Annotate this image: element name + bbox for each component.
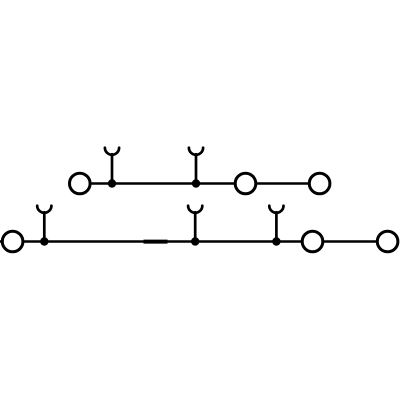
wire lower bus main segment xyxy=(24,240,301,243)
junction lower 3 xyxy=(272,237,280,245)
clamp contact lower 1 xyxy=(37,206,51,242)
wire lower bus overlap bar xyxy=(144,240,168,244)
junction lower 1 xyxy=(40,237,48,245)
terminal circle upper right xyxy=(309,173,330,194)
junction lower 2 xyxy=(191,237,199,245)
terminal circle upper left xyxy=(70,173,91,194)
terminal circle lower right xyxy=(377,231,398,252)
terminal circle upper middle xyxy=(235,173,256,194)
clamp contact lower 3 xyxy=(269,206,283,242)
wire lower bus right segment xyxy=(324,240,377,243)
wire upper bus right segment xyxy=(257,182,309,185)
clamp contact upper 1 xyxy=(105,148,119,184)
junction upper 2 xyxy=(192,179,200,187)
terminal circle lower left xyxy=(2,231,23,252)
clamp contact lower 2 xyxy=(188,206,202,242)
wire lower bus stub at left edge xyxy=(0,240,3,243)
junction upper 1 xyxy=(108,179,116,187)
wire upper bus left segment xyxy=(91,182,234,185)
clamp contact upper 2 xyxy=(189,148,203,184)
terminal circle lower middle xyxy=(302,231,323,252)
